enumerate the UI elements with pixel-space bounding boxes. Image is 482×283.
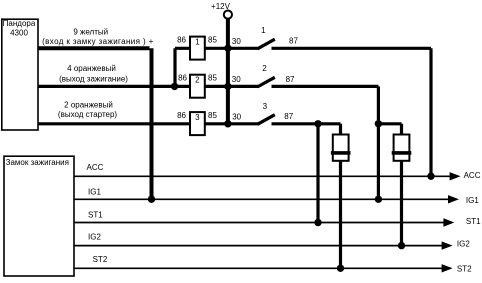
svg-text:Пандора: Пандора — [3, 19, 36, 28]
svg-text:30: 30 — [232, 37, 241, 46]
svg-text:(выход стартер): (выход стартер) — [58, 110, 118, 119]
svg-text:Замок зажигания: Замок зажигания — [6, 158, 69, 167]
svg-text:+12V: +12V — [211, 2, 231, 11]
svg-text:2: 2 — [195, 76, 200, 85]
svg-text:ST2: ST2 — [457, 264, 472, 273]
svg-text:ST1: ST1 — [466, 217, 481, 226]
svg-text:85: 85 — [208, 74, 217, 83]
svg-text:ACC: ACC — [87, 163, 104, 172]
svg-text:(вход к замку зажигания ) +: (вход к замку зажигания ) + — [42, 37, 154, 46]
svg-text:2: 2 — [262, 64, 267, 73]
svg-text:87: 87 — [286, 75, 295, 84]
svg-text:1: 1 — [261, 26, 266, 35]
svg-text:30: 30 — [232, 112, 241, 121]
svg-text:(выход зажигание): (выход зажигание) — [59, 74, 128, 83]
svg-text:4300: 4300 — [10, 28, 28, 37]
svg-text:3: 3 — [195, 113, 200, 122]
svg-text:IG1: IG1 — [88, 188, 101, 197]
svg-text:86: 86 — [178, 74, 187, 83]
svg-text:ACC: ACC — [464, 171, 481, 180]
svg-text:9 желтый: 9 желтый — [73, 28, 108, 37]
svg-text:ST1: ST1 — [88, 210, 103, 219]
svg-text:3: 3 — [263, 102, 268, 111]
svg-text:30: 30 — [232, 75, 241, 84]
svg-text:2 оранжевый: 2 оранжевый — [64, 101, 113, 110]
svg-text:4 оранжевый: 4 оранжевый — [67, 64, 116, 73]
svg-text:85: 85 — [208, 36, 217, 45]
svg-text:87: 87 — [289, 37, 298, 46]
svg-text:87: 87 — [284, 112, 293, 121]
svg-text:IG2: IG2 — [88, 232, 101, 241]
svg-text:IG1: IG1 — [466, 196, 479, 205]
svg-text:1: 1 — [195, 37, 200, 46]
svg-text:ST2: ST2 — [93, 255, 108, 264]
svg-text:85: 85 — [208, 111, 217, 120]
svg-text:86: 86 — [177, 36, 186, 45]
svg-text:86: 86 — [177, 111, 186, 120]
svg-text:IG2: IG2 — [457, 239, 470, 248]
